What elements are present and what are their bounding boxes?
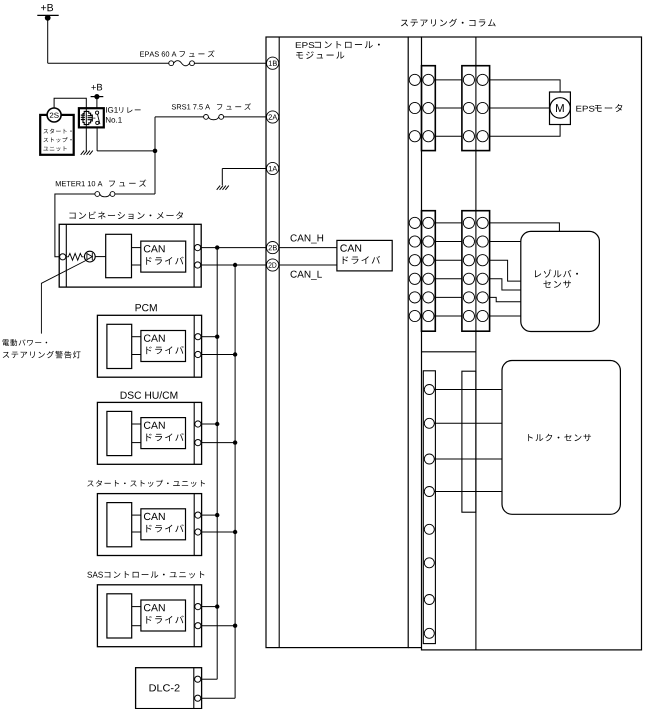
power symbol +B (EPAS feed) xyxy=(37,4,58,21)
CAN driver U2a (meter) xyxy=(141,241,186,272)
label EPS motor xyxy=(576,104,622,112)
meter internal block xyxy=(106,234,132,277)
wire resolver 2 xyxy=(490,241,521,243)
wire resolver 4 xyxy=(490,279,521,290)
pin 2B xyxy=(267,242,279,254)
torque pin row 2 xyxy=(424,418,434,428)
wire METER1 fuse to combination meter xyxy=(55,194,95,257)
DLC-2 box xyxy=(136,668,202,709)
CAN_L bus (vertical) xyxy=(202,265,236,698)
ground (relay coil) xyxy=(81,151,93,155)
wire node J1 to SRS1 fuse xyxy=(155,117,204,151)
wire CAN_L meter to pin 2D xyxy=(201,264,266,266)
junction CAN_L (DSC HU/CM) xyxy=(233,440,237,444)
frame link top (module to column) xyxy=(408,36,421,38)
internal block SAS control unit xyxy=(107,594,132,638)
wire motor phase 1 xyxy=(490,80,560,92)
internal block PCM xyxy=(107,324,132,368)
connector 2S xyxy=(47,108,61,122)
wire relay switch to node J1 xyxy=(97,127,155,150)
connector pins row 2 xyxy=(409,236,488,247)
warning lamp (EPS warning light) xyxy=(84,251,95,262)
wire between connectors row 1 xyxy=(435,222,462,224)
torque connector column xyxy=(422,351,476,353)
torque pin row 6 xyxy=(424,558,434,568)
motor M1 (EPS motor) xyxy=(550,92,571,125)
meter pin (left) xyxy=(60,254,66,260)
pins (PCM) xyxy=(195,334,201,340)
CAN_H bus (vertical) xyxy=(202,248,218,680)
junction J1 xyxy=(153,149,158,154)
connector pins row 1 xyxy=(409,217,488,228)
column connector (harness side) xyxy=(462,66,490,151)
connector pins row 4 xyxy=(409,273,488,284)
CAN driver (PCM) xyxy=(141,331,186,362)
wire DSC HU/CM CAN_H to bus xyxy=(202,423,218,425)
torque sensor box xyxy=(502,361,620,515)
wire pin 2B to CAN driver U1 xyxy=(279,247,337,249)
net label CAN_H xyxy=(291,234,324,243)
wire DSC HU/CM CAN_L to bus xyxy=(202,442,236,444)
fuse EPAS 60 A xyxy=(169,61,195,66)
label PCM xyxy=(136,304,157,311)
callout line to warning light label xyxy=(41,261,85,334)
wire between connectors row 3 xyxy=(435,259,462,261)
module box PCM xyxy=(97,315,201,377)
connector pins row 1 xyxy=(409,74,488,85)
label electric power steering warning light xyxy=(2,339,80,358)
junction CAN_L (SAS control unit) xyxy=(233,624,237,628)
wires internal block to CAN driver (meter) xyxy=(132,248,141,265)
pins (SAS control unit) xyxy=(195,604,201,610)
CAN driver (start-stop unit) xyxy=(141,509,186,540)
label METER1 10 A fuse xyxy=(56,179,146,186)
pin 2A xyxy=(267,111,279,123)
label SRS1 7.5 A fuse xyxy=(172,103,251,110)
start-stop unit box xyxy=(40,115,73,155)
wire +B to relay switch xyxy=(96,97,98,109)
wire between connectors row 3 xyxy=(435,135,462,137)
CAN driver (SAS control unit) xyxy=(141,600,186,631)
net label CAN_L xyxy=(291,271,322,280)
wire node J1 to METER1 fuse xyxy=(115,151,155,194)
wire motor phase 2 xyxy=(490,107,550,109)
junction CAN_L bus (meter) xyxy=(233,263,237,267)
torque pin row 3 xyxy=(424,454,434,464)
torque pin row 4 xyxy=(424,487,434,497)
junction CAN_H (start-stop unit) xyxy=(215,513,219,517)
wire torque sensor 4 xyxy=(434,491,502,493)
wire between connectors row 2 xyxy=(435,107,462,109)
wire between connectors row 1 xyxy=(435,79,462,81)
torque pin row 7 xyxy=(424,595,434,605)
wire pin 1A to ground xyxy=(222,169,266,186)
module box start-stop unit xyxy=(97,494,201,556)
connector pins row 2 xyxy=(409,102,488,113)
connector pins row 3 xyxy=(409,255,488,266)
wire torque sensor 1 xyxy=(434,389,502,391)
combination meter box U2 xyxy=(59,224,201,287)
pin 2D xyxy=(267,259,279,271)
wires internal to CAN driver SAS control unit xyxy=(132,607,141,626)
wire SAS control unit CAN_H to bus xyxy=(202,606,218,608)
pins (DSC HU/CM) xyxy=(195,421,201,427)
wire CAN_H meter to pin 2B xyxy=(201,247,266,249)
wire SRS1 fuse to pin 2A xyxy=(224,116,267,118)
torque connector (harness side) xyxy=(462,371,476,512)
junction CAN_L (start-stop unit) xyxy=(233,530,237,534)
junction CAN_H (SAS control unit) xyxy=(215,604,219,608)
label torque sensor xyxy=(528,434,591,442)
wire between connectors row 4 xyxy=(435,278,462,280)
resistor (meter) xyxy=(66,253,83,260)
internal block start-stop unit xyxy=(107,503,132,547)
junction CAN_H (PCM) xyxy=(215,335,219,339)
torque pin row 8 xyxy=(424,628,434,638)
wire start-stop unit CAN_L to bus xyxy=(202,531,236,533)
junction CAN_H (DSC HU/CM) xyxy=(215,422,219,426)
wire SAS control unit CAN_L to bus xyxy=(202,625,236,627)
wire EPAS fuse to pin 1B xyxy=(194,62,266,64)
wire between connectors row 5 xyxy=(435,296,462,298)
column connector (module side) xyxy=(422,66,436,151)
EPS control module box U1 xyxy=(266,37,408,648)
label resolver sensor xyxy=(535,269,578,288)
connector pins row 6 xyxy=(409,310,488,321)
junction CAN_L (PCM) xyxy=(233,352,237,356)
frame link bottom (module to column) xyxy=(408,647,421,649)
module box SAS control unit xyxy=(97,585,201,647)
meter pins (right) xyxy=(195,245,201,251)
wire motor phase 3 xyxy=(490,125,560,137)
wire resolver 1 xyxy=(490,223,560,232)
wires internal to CAN driver DSC HU/CM xyxy=(132,424,141,443)
label EPS control module xyxy=(296,41,380,59)
label DSC HU/CM xyxy=(121,391,178,399)
resolver sensor box xyxy=(521,231,600,331)
wire torque sensor 2 xyxy=(434,422,502,424)
internal block DSC HU/CM xyxy=(107,411,132,455)
wire +B to EPAS fuse xyxy=(48,18,169,63)
power symbol +B (IG1 relay) xyxy=(91,84,104,99)
steering column box xyxy=(422,37,642,650)
wires internal to CAN driver start-stop unit xyxy=(132,515,141,532)
pin 1A xyxy=(267,162,279,174)
connector pins row 5 xyxy=(409,292,488,303)
wire between connectors row 2 xyxy=(435,241,462,243)
relay IG1 No.1 xyxy=(79,108,104,127)
label combination meter xyxy=(69,211,183,219)
wire between connectors row 6 xyxy=(435,315,462,317)
wires internal to CAN driver PCM xyxy=(132,337,141,355)
wire lamp to meter internal xyxy=(95,256,106,258)
wire pin 2D to CAN driver U1 xyxy=(279,264,337,266)
torque pin row 1 xyxy=(424,385,434,395)
wire 2S to IG1 relay coil xyxy=(54,98,86,108)
module box DSC HU/CM xyxy=(97,402,201,464)
torque pin row 5 xyxy=(424,524,434,534)
column connector (module side) xyxy=(422,211,436,332)
wire resolver 5 xyxy=(490,297,521,301)
label steering column xyxy=(401,19,496,27)
column connector (harness side) xyxy=(462,211,490,332)
DLC-2 pins xyxy=(195,676,201,682)
wire PCM CAN_L to bus xyxy=(202,354,236,356)
pin 1B xyxy=(267,57,279,69)
wire resolver 6 xyxy=(490,315,521,317)
wire resolver 3 xyxy=(490,260,521,281)
pins (start-stop unit) xyxy=(195,512,201,518)
label SAS control unit xyxy=(87,571,204,578)
label IG1 relay No.1 xyxy=(106,107,141,123)
torque connector (module side) xyxy=(423,371,435,644)
fuse METER1 10 A xyxy=(95,192,115,197)
CAN driver (DSC HU/CM) xyxy=(141,418,186,449)
CAN driver U1 (EPS module) xyxy=(337,240,392,271)
connector pins row 3 xyxy=(409,131,488,142)
wire start-stop unit CAN_H to bus xyxy=(202,514,218,516)
column harness line xyxy=(475,37,477,650)
junction CAN_H bus (meter) xyxy=(215,245,219,249)
wire torque sensor 3 xyxy=(434,458,502,460)
label start-stop unit xyxy=(87,480,205,487)
label EPAS 60 A fuse xyxy=(140,50,214,57)
ground (EPS module 1A) xyxy=(217,186,229,190)
wire relay coil to ground xyxy=(85,127,87,150)
wire PCM CAN_H to bus xyxy=(202,336,218,338)
fuse SRS1 7.5 A xyxy=(204,115,224,120)
